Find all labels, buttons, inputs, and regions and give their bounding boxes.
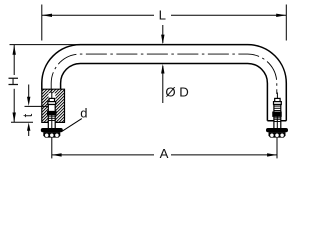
right leg bottom face [267, 120, 286, 122]
dimension L: line left part [42, 14, 154, 16]
left washer [41, 129, 62, 132]
dimension A: left arrowhead [52, 153, 62, 156]
dimension A: line left part [52, 154, 154, 156]
panel step line [25, 105, 49, 107]
dimension L: line right part [171, 14, 286, 16]
dimension H: line upper part with up arrowhead [13, 45, 15, 75]
svg-text:t: t [21, 113, 35, 117]
handle tube inner outline [61, 64, 268, 121]
dimension L: extension line right [285, 5, 287, 41]
svg-text:H: H [6, 77, 21, 87]
dimension A: right arrowhead [267, 153, 277, 156]
dimension t: upper arrow pointing down [28, 85, 30, 99]
svg-text:A: A [160, 146, 169, 161]
handle tube outer outline [42, 45, 286, 121]
dimension A: line right part [171, 154, 277, 156]
svg-text:Ø D: Ø D [165, 85, 188, 100]
left hex nut [43, 132, 60, 138]
dimension t: bottom extension line [11, 121, 33, 123]
right stud with thread [273, 93, 282, 129]
panel section hatch block [8, 89, 98, 122]
dimension L: right arrowhead [276, 14, 286, 17]
svg-text:L: L [159, 8, 166, 23]
dimension L: extension line left [41, 5, 43, 41]
diameter D lower arrow [162, 66, 164, 103]
right washer [267, 129, 288, 132]
right hex nut [269, 132, 286, 138]
tube centerline (dash-dot) [51, 54, 277, 94]
dimension t: lower arrow pointing up [28, 130, 30, 136]
left leg centerline extension to A [51, 138, 53, 159]
dimension H: top extension line [10, 44, 81, 46]
dimension H: line lower part with down arrowhead [13, 89, 15, 123]
left stud with thread [48, 93, 57, 129]
dimension L: left arrowhead [42, 14, 52, 17]
right leg centerline extension to A [276, 138, 278, 159]
diameter D upper arrow [162, 25, 164, 43]
